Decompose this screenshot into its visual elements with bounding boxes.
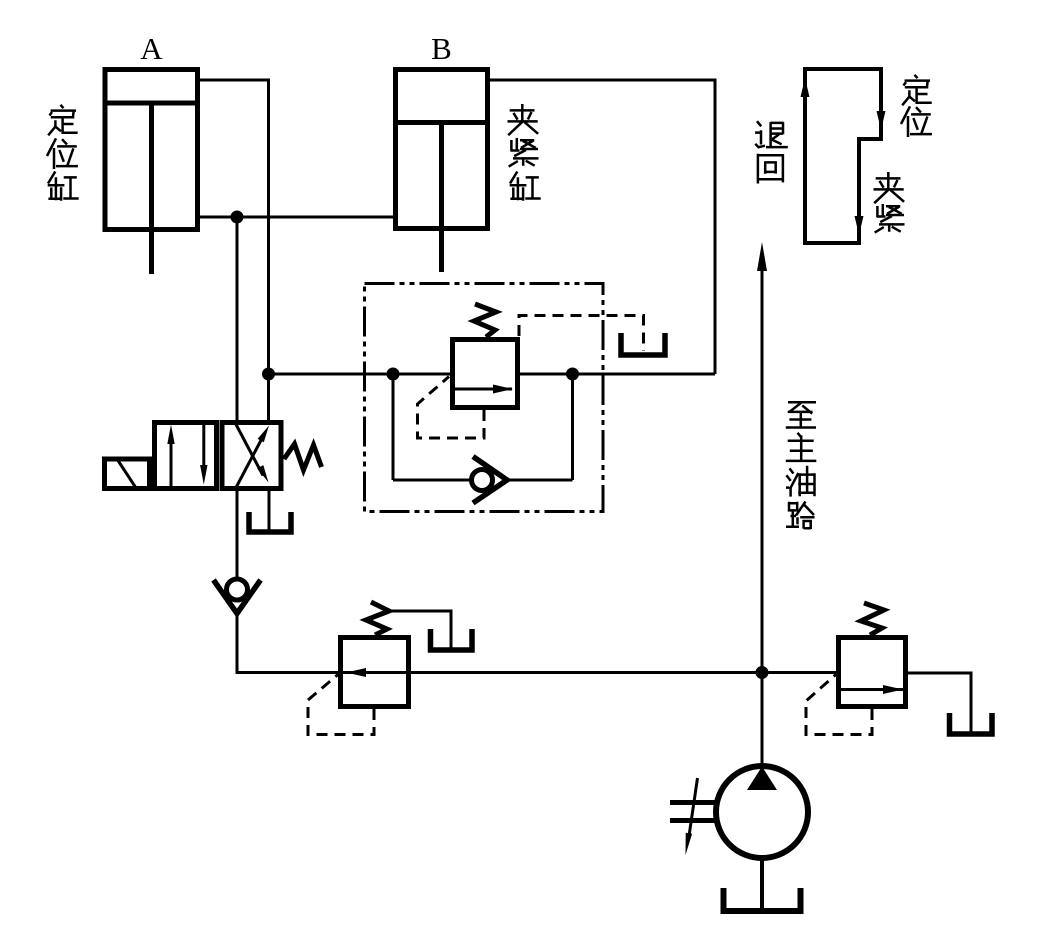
wire main line y374 right part — [520, 373, 715, 376]
wire dot to valve A port — [267, 374, 270, 420]
directional valve right position square — [222, 423, 281, 489]
cylinder B rod — [439, 124, 444, 272]
sequence valve internal flow line — [452, 388, 512, 391]
wire valve bottom to check valve CV1 — [236, 489, 239, 579]
wire relief valve outlet to tank — [908, 673, 971, 733]
node branch right — [566, 368, 579, 381]
relief valve body (bottom right) — [839, 638, 906, 707]
sequence valve internal arrow — [493, 385, 513, 394]
tank T2 (directional valve) — [249, 512, 291, 532]
sequence valve spring — [474, 304, 496, 337]
wire B top port — [489, 80, 715, 374]
reducing valve body (bottom left) — [341, 638, 409, 707]
node main line left — [262, 368, 275, 381]
label 退回 — [755, 121, 788, 183]
pump variable displacement arrow — [686, 778, 698, 855]
check valve CV2 ball — [472, 470, 493, 491]
node pump junction — [756, 666, 769, 679]
wire pump to main oil line vertical — [761, 262, 764, 766]
directional valve left straight arrow up — [167, 425, 174, 487]
cylinder A rod — [149, 105, 154, 274]
wire check valve branch left — [393, 479, 472, 482]
wire branch right vertical — [571, 374, 574, 480]
directional valve spring — [284, 444, 322, 470]
relief valve internal flow line — [839, 688, 903, 691]
tank T3 (reducing valve drain) — [431, 629, 473, 650]
sequence valve drain dashed line to tank — [519, 316, 644, 352]
tank T1 (sequence valve drain) — [621, 333, 665, 355]
node branch left — [387, 368, 400, 381]
cylinder B body — [396, 70, 488, 229]
wire A top port — [199, 80, 269, 374]
tank T4 (relief valve) — [950, 713, 993, 734]
wire valve T port down — [268, 489, 271, 533]
cycle diagram up arrow — [801, 78, 810, 97]
wire down to directional valve P port — [236, 217, 239, 420]
relief valve internal arrow — [883, 685, 903, 694]
cylinder A piston — [103, 101, 199, 106]
wire A bottom port to B — [199, 216, 394, 219]
label 至主油路 — [786, 402, 817, 529]
reducing valve drain line — [389, 611, 451, 649]
wire branch left vertical — [392, 374, 395, 480]
solenoid — [105, 459, 150, 489]
sequence valve pilot dashed line — [418, 377, 485, 439]
svg-text:A: A — [140, 31, 163, 66]
check valve CV2 seat — [473, 457, 507, 504]
label 定位 — [901, 75, 932, 137]
label 夹紧 — [874, 172, 905, 233]
cylinder B piston — [394, 120, 489, 125]
relief valve spring — [861, 603, 884, 635]
directional valve left straight arrow down — [200, 424, 207, 485]
relief valve pilot dashed line — [806, 675, 872, 735]
check valve CV1 ball — [227, 579, 248, 600]
cylinder A body — [105, 70, 198, 230]
svg-text:B: B — [431, 31, 452, 66]
pump drive shaft double line — [670, 803, 716, 821]
arrow to main oil line — [757, 242, 767, 271]
reducing valve pilot dashed line — [308, 675, 374, 735]
wire main line y374 left part — [269, 373, 451, 376]
label 夹紧缸 — [508, 104, 541, 201]
sequence valve assembly enclosure (phantom box) — [365, 284, 604, 512]
cycle diagram down arrow upper — [877, 111, 886, 130]
wire CV1 to bottom main line — [237, 614, 836, 673]
directional valve crossed arrow 1 — [236, 426, 270, 489]
sequence valve body — [453, 340, 518, 408]
wire check valve branch right — [507, 479, 573, 482]
node at A bottom port — [231, 211, 244, 224]
reducing valve spring — [366, 602, 389, 635]
directional valve left position square — [155, 423, 217, 489]
cycle diagram down arrow lower — [855, 216, 864, 235]
label 定位缸 — [47, 105, 79, 201]
pump circle — [716, 766, 808, 858]
cycle diagram outline — [805, 69, 881, 243]
tank T5 (pump suction) — [724, 888, 801, 911]
check valve CV1 seat — [214, 580, 261, 614]
pump outlet triangle — [747, 767, 777, 791]
wire pump suction — [760, 856, 764, 912]
reducing valve internal arrow — [346, 668, 366, 677]
directional valve crossed arrow 2 — [236, 424, 269, 483]
